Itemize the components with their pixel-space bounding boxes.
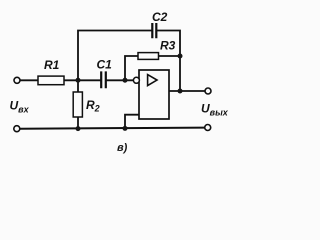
svg-text:R3: R3 xyxy=(160,39,176,53)
wire non-inverting input xyxy=(125,115,139,129)
node junction R1/C2/R2 xyxy=(76,78,81,83)
resistor R3 xyxy=(138,53,159,60)
svg-text:в): в) xyxy=(117,142,128,154)
svg-text:R2: R2 xyxy=(86,98,100,114)
capacitor C2 xyxy=(152,23,156,38)
node junction R2/rail xyxy=(76,126,81,131)
svg-text:C2: C2 xyxy=(152,10,168,24)
node junction output/feedback xyxy=(178,89,183,94)
op-amp triangle xyxy=(148,75,157,86)
wire R3 right to node xyxy=(159,55,181,57)
wire C2 right to right vertical down to output node xyxy=(156,31,180,92)
capacitor C1 xyxy=(101,71,106,88)
node junction R3/right vertical xyxy=(178,54,183,59)
op-amp U1 body xyxy=(139,70,169,119)
wire R2 top lead xyxy=(77,80,79,92)
svg-text:Uвых: Uвых xyxy=(201,102,229,118)
svg-text:C1: C1 xyxy=(97,58,113,72)
svg-text:R1: R1 xyxy=(44,58,60,72)
svg-text:Uвх: Uвх xyxy=(10,99,30,115)
node junction +input/rail xyxy=(123,126,128,131)
output terminal bottom xyxy=(205,125,211,131)
wire input terminal to R1 xyxy=(20,79,38,81)
wire C1 to op-amp input bubble xyxy=(106,79,134,81)
wire bottom rail xyxy=(20,128,205,129)
op-amp inverting input bubble xyxy=(133,77,139,83)
input terminal top xyxy=(14,77,20,83)
resistor R2 xyxy=(73,92,82,117)
resistor R1 xyxy=(38,76,64,85)
wire op-amp output xyxy=(169,90,205,92)
wire R3 branch left riser xyxy=(125,56,138,80)
wire R2 bottom lead xyxy=(77,117,79,129)
wire R1 to C1 xyxy=(64,79,101,81)
node junction C1/R3/op-amp xyxy=(123,78,128,83)
input terminal bottom xyxy=(14,126,20,132)
wire top feedback left riser and run to C2 xyxy=(78,31,152,81)
output terminal top xyxy=(205,88,211,94)
